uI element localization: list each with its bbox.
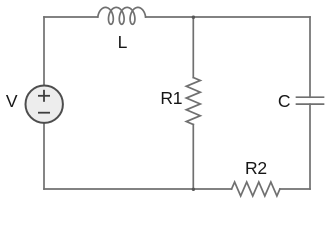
- wire middle lower (R1 to bottom node): [192, 125, 194, 190]
- svg-text:R1: R1: [160, 88, 182, 108]
- wire bottom-left (node to R2): [44, 188, 232, 190]
- svg-text:C: C: [278, 91, 291, 111]
- junction node (bottom middle): [192, 188, 195, 191]
- wire top-left (source top to inductor): [44, 16, 98, 18]
- capacitor C bottom plate: [297, 103, 324, 105]
- voltage source V circle: [26, 86, 63, 123]
- resistor R2 (horizontal zigzag): [232, 182, 280, 196]
- resistor R1 (vertical zigzag): [186, 78, 200, 125]
- voltage source plus sign: [38, 90, 50, 102]
- junction node (top middle): [192, 16, 195, 19]
- svg-text:V: V: [6, 91, 18, 111]
- wire left lower (source to bottom wire): [43, 118, 45, 189]
- wire bottom-right (R2 to bottom-right corner): [280, 188, 310, 190]
- capacitor C top plate: [297, 96, 324, 98]
- wire top-right (inductor to top-right corner): [146, 16, 310, 18]
- inductor L (coil): [98, 7, 146, 24]
- wire right upper (top wire to capacitor): [309, 17, 311, 97]
- wire middle upper (top node to R1): [192, 17, 194, 78]
- svg-text:L: L: [118, 32, 128, 52]
- wire left upper (top wire down to source): [43, 17, 45, 90]
- svg-text:R2: R2: [245, 158, 267, 178]
- wire right lower (capacitor to bottom wire): [309, 104, 311, 189]
- voltage source minus sign: [38, 112, 50, 114]
